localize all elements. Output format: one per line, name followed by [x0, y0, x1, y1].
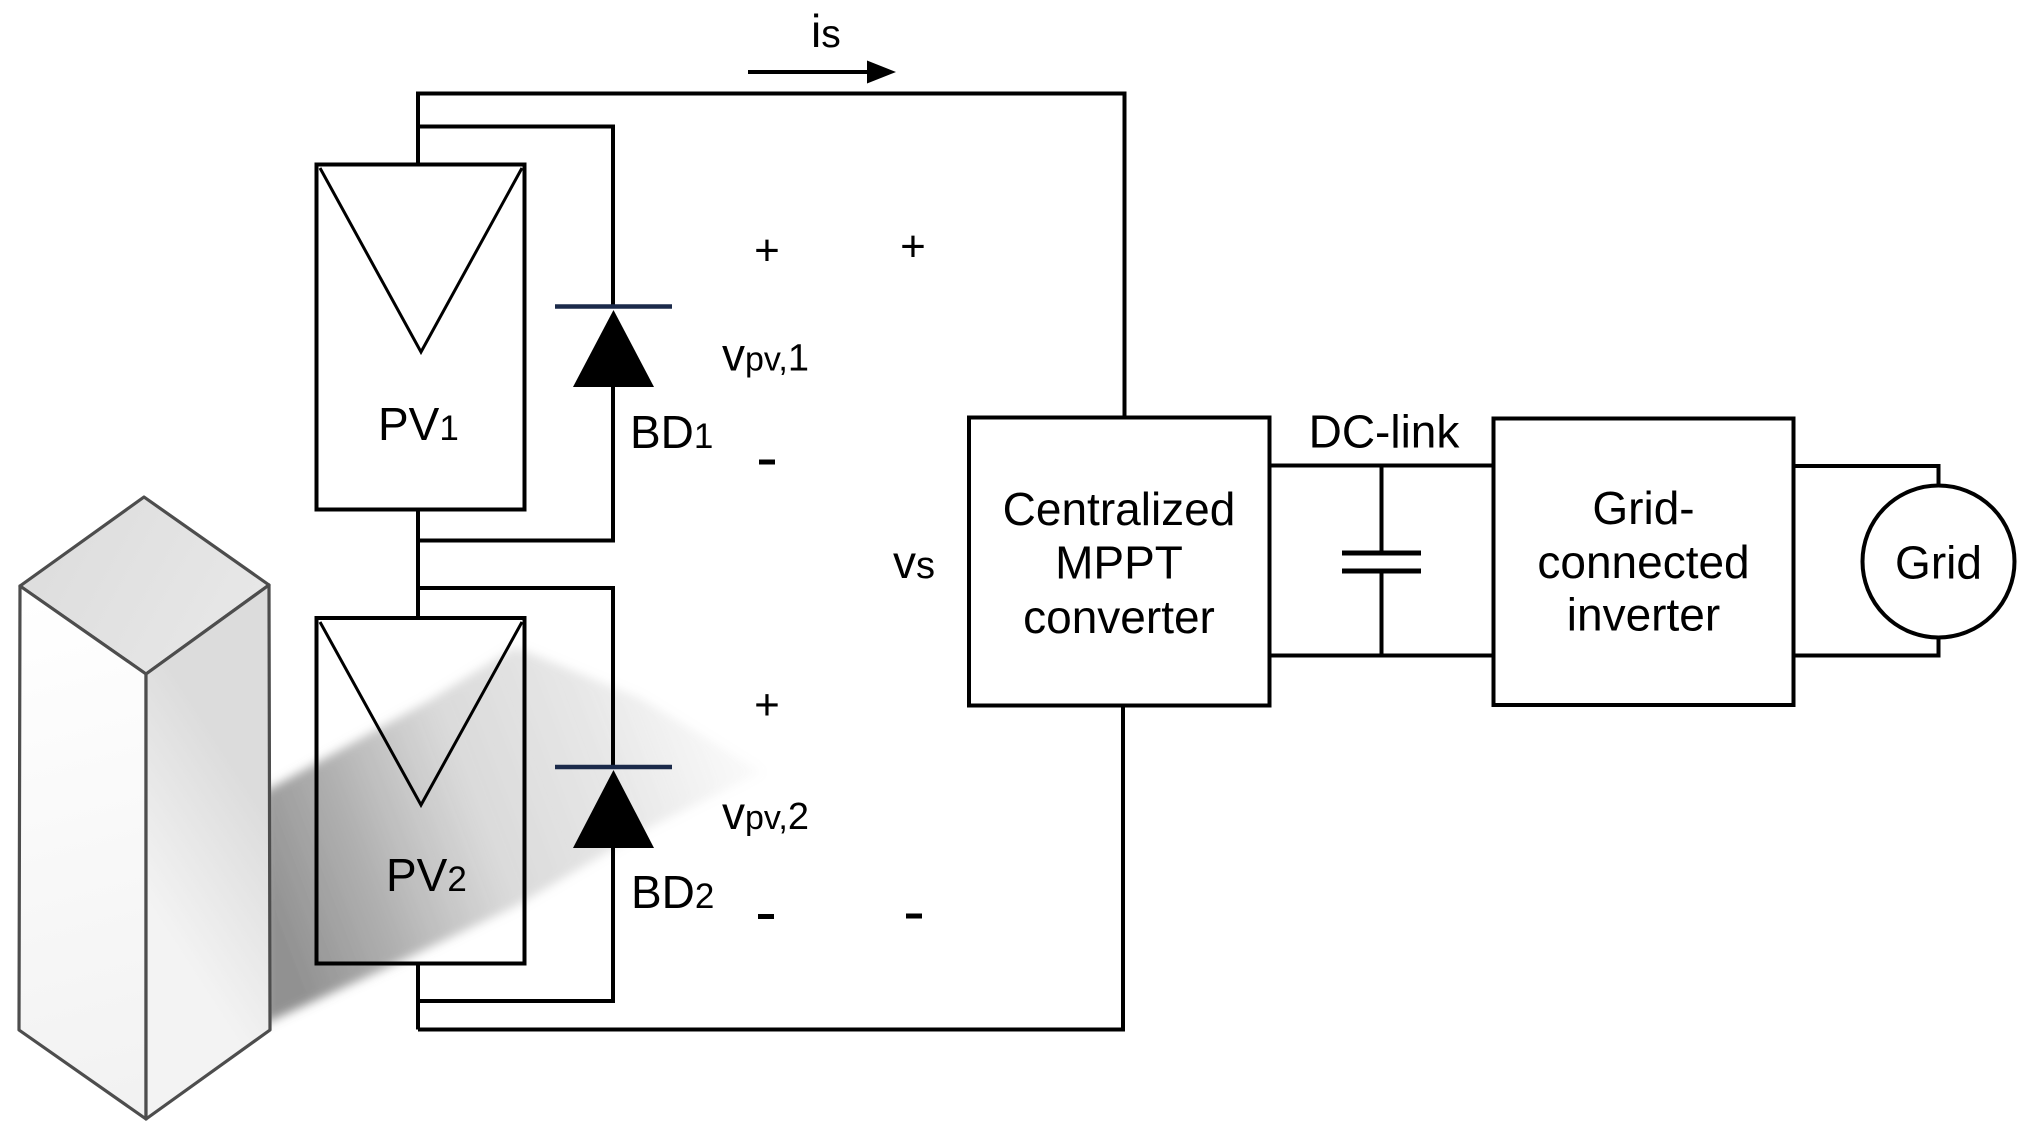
svg-text:is: is: [811, 5, 841, 57]
svg-text:MPPT: MPPT: [1055, 537, 1183, 589]
svg-text:DC-link: DC-link: [1309, 406, 1461, 458]
svg-text:vs: vs: [893, 536, 935, 588]
wire: top rail from PV1 top to MPPT converter: [418, 94, 1125, 418]
PV module PV1: [317, 165, 525, 510]
svg-text:vpv,1: vpv,1: [722, 329, 809, 381]
shadow cast by pillar onto PV2: [264, 647, 762, 1024]
wire: DC-link lower: [1270, 654, 1494, 658]
bypass diode BD1: [555, 304, 672, 309]
block U1 Centralized MPPT converter: [969, 418, 1270, 706]
wire: BD2 anode to PV2 bottom: [418, 846, 613, 1001]
wire: PV2 bottom to bottom rail: [416, 964, 420, 1030]
capacitor top plate: [1342, 551, 1421, 556]
svg-text:inverter: inverter: [1567, 589, 1720, 641]
wire: BD1 anode branch: [418, 127, 613, 309]
block U2 Grid-connected inverter: [1494, 419, 1794, 706]
svg-text:Centralized: Centralized: [1003, 483, 1236, 535]
capacitor bottom plate: [1342, 569, 1421, 574]
wire: midpoint between PV1 and PV2: [416, 510, 420, 619]
svg-text:BD1: BD1: [630, 406, 713, 458]
wire: BD2 cathode branch: [418, 588, 613, 769]
wire: BD1 cathode to midpoint: [418, 385, 613, 541]
svg-text:converter: converter: [1023, 591, 1215, 643]
grid source symbol: [1863, 486, 2015, 638]
wire: inverter to grid upper: [1794, 466, 1939, 486]
pillar (3D obstruction) top face: [20, 497, 269, 674]
node vpv1 minus: [759, 460, 775, 465]
pillar right face: [146, 585, 270, 1119]
wire: inverter to grid lower: [1794, 638, 1939, 656]
svg-text:+: +: [754, 226, 780, 275]
current arrow is: [748, 70, 870, 74]
svg-text:vpv,2: vpv,2: [722, 787, 809, 839]
node vpv2 minus: [758, 914, 774, 919]
wire: bottom rail to MPPT converter: [418, 706, 1123, 1030]
svg-text:PV1: PV1: [378, 398, 459, 450]
capacitor C dc-link top lead: [1380, 466, 1384, 552]
bypass diode BD2: [555, 765, 672, 770]
svg-text:BD2: BD2: [631, 866, 714, 918]
svg-text:Grid: Grid: [1895, 537, 1982, 589]
svg-text:+: +: [754, 681, 780, 730]
svg-text:connected: connected: [1537, 536, 1749, 588]
svg-text:+: +: [900, 222, 926, 271]
capacitor bottom lead: [1380, 573, 1384, 656]
node vs minus: [906, 914, 922, 919]
svg-text:Grid-: Grid-: [1592, 482, 1694, 534]
wire: DC-link upper: [1270, 464, 1494, 468]
pillar left face: [19, 586, 146, 1119]
PV module PV2: [317, 618, 525, 964]
